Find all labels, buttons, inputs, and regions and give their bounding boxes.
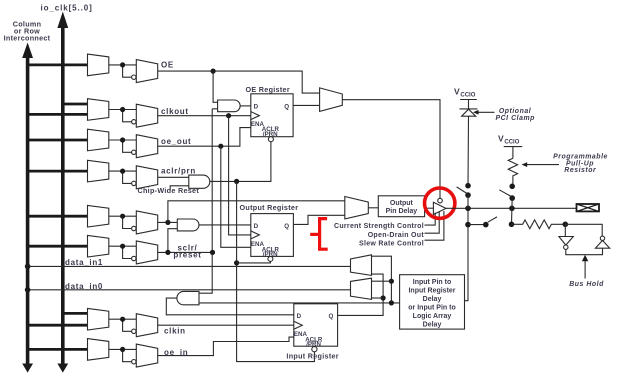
diode PCI clamp xyxy=(460,109,478,186)
svg-text:OE: OE xyxy=(161,61,174,70)
node data_in1 label xyxy=(65,258,103,267)
mux sclr/preset (interconnect select) xyxy=(88,235,137,257)
svg-text:CCIO: CCIO xyxy=(460,93,475,99)
power rail clamp xyxy=(460,100,477,109)
svg-text:io_clk[5..0]: io_clk[5..0] xyxy=(41,4,93,13)
wire stub aclr/prn row xyxy=(28,170,88,173)
wire stub oe_in row xyxy=(28,348,88,351)
junction aclr to output register bubble xyxy=(234,260,239,265)
node Optional PCI Clamp label xyxy=(495,108,534,122)
wire data_out bypass to output mux xyxy=(168,201,345,223)
flip-flop Output Register xyxy=(251,214,294,259)
wire sclr/preset line xyxy=(158,251,213,253)
svg-text:Output: Output xyxy=(390,200,414,207)
wire bus hold branch from pad line xyxy=(511,208,513,224)
pin Input Register ACLR bubble xyxy=(312,347,317,352)
wire OE Register Q to bypass mux xyxy=(293,104,320,106)
bus column/row interconnect (left vertical bus with arrows) xyxy=(22,43,33,373)
wire output mux to output pin delay xyxy=(368,207,378,209)
wire oe_in line to input register ENA xyxy=(158,337,294,356)
mux aclr/prn (interconnect select) xyxy=(88,160,137,182)
svg-text:Interconnect: Interconnect xyxy=(4,34,51,43)
svg-text:Bus Hold: Bus Hold xyxy=(569,281,604,288)
node clkin label xyxy=(164,326,186,335)
junction input branch switch xyxy=(465,222,471,228)
gate chip-wide reset AND xyxy=(189,175,210,188)
flip-flop OE Register xyxy=(251,94,293,138)
svg-text:preset: preset xyxy=(173,250,201,259)
buffer aclr/prn programmable inversion xyxy=(123,166,158,189)
junction clkout tap xyxy=(226,113,231,118)
mux data_in1 select (left pointing) xyxy=(351,255,372,276)
wire stub clkin row upper (from io_clk) xyxy=(63,312,88,315)
mux oe_out (interconnect select) xyxy=(88,129,137,151)
junction clkout xyxy=(120,107,125,112)
junction data_in1 on bus xyxy=(25,264,31,270)
wire oe_out vertical to output register ENA xyxy=(221,146,251,247)
buffer clkin programmable inversion xyxy=(123,314,158,337)
junction oe_out tap xyxy=(218,144,223,149)
svg-text:Pin Delay: Pin Delay xyxy=(386,208,418,215)
switch input disconnect xyxy=(468,217,497,228)
svg-text:Q: Q xyxy=(329,313,334,320)
diode bus hold right (up) xyxy=(595,236,609,248)
node Programmable Pull-Up Resistor label xyxy=(553,154,608,174)
node Current Strength Control label xyxy=(334,223,424,230)
buffer data_out programmable inversion xyxy=(123,211,158,234)
mux output path select xyxy=(345,197,369,219)
wire sclr vertical distribution xyxy=(199,109,218,293)
junction OE tap xyxy=(211,69,216,74)
svg-text:data_in1: data_in1 xyxy=(65,258,103,267)
junction pad line pull-up branch xyxy=(509,206,515,212)
wire stub clkout row upper (from io_clk) xyxy=(63,103,88,106)
mux oe_in (interconnect select) xyxy=(88,339,137,361)
wire clkin line to input register clock xyxy=(158,324,294,326)
wire stub clkout row lower xyxy=(28,113,88,116)
buffer oe_in programmable inversion xyxy=(123,344,158,367)
node VCCIO pull-up label xyxy=(498,134,520,146)
wire arrow to clamp diode xyxy=(473,110,495,115)
pin tri-state OE bubble xyxy=(438,198,443,203)
wire branch to mux B top input xyxy=(372,280,392,282)
node aclr/prn label xyxy=(161,166,196,175)
wire arrow to pull-up resistor xyxy=(522,162,560,167)
wire delay box output line to gate xyxy=(199,302,400,304)
junction aclr/prn xyxy=(120,169,125,174)
pin OE Register ACLR bubble xyxy=(268,137,273,142)
wire aclr vertical distribution xyxy=(237,181,315,361)
node Open-Drain Out label xyxy=(368,232,425,239)
junction oe_in xyxy=(120,347,125,352)
svg-text:D: D xyxy=(254,223,259,230)
mux clkin (interconnect select) xyxy=(88,308,137,330)
wire data_out line to AND gate xyxy=(158,221,178,223)
junction oe_out xyxy=(120,137,125,142)
wire OE mux output to tri-state control xyxy=(342,100,440,199)
junction data_in0 on bus xyxy=(25,287,31,293)
switch pull-up xyxy=(499,184,515,209)
svg-text:Delay: Delay xyxy=(423,322,442,329)
buffer clkout programmable inversion xyxy=(123,104,158,127)
node VCCIO clamp label xyxy=(454,87,476,99)
node sclr/preset label xyxy=(173,243,201,259)
junction clkin xyxy=(120,317,125,322)
svg-text:Output Register: Output Register xyxy=(240,203,299,212)
bus io_clk (second vertical bus with arrows) xyxy=(57,12,68,373)
wire pad line xyxy=(446,207,577,209)
junction bus hold node xyxy=(563,222,569,228)
wire bus hold loop xyxy=(565,224,602,254)
svg-text:aclr/prn: aclr/prn xyxy=(161,166,196,175)
junction mux B top input xyxy=(389,279,394,284)
wire open-drain out stub xyxy=(425,212,440,233)
block Input Pin Delay xyxy=(400,275,465,329)
svg-text:Programmable: Programmable xyxy=(553,154,608,161)
svg-text:Current Strength Control: Current Strength Control xyxy=(334,223,424,230)
wire slew rate control stub xyxy=(425,211,444,240)
junction pad line clamp branch xyxy=(465,206,471,212)
svg-text:oe_out: oe_out xyxy=(161,137,191,146)
block Output Pin Delay xyxy=(378,196,424,217)
svg-text:OE Register: OE Register xyxy=(246,85,290,94)
buffer sclr/preset programmable inversion xyxy=(123,241,158,264)
svg-text:CCIO: CCIO xyxy=(504,140,519,146)
node OE Register label xyxy=(246,85,290,94)
node io_clk[5..0] label xyxy=(41,4,93,13)
junction sclr vertical xyxy=(210,250,215,255)
mux OE bypass select xyxy=(320,88,343,112)
wire gate output to input register D xyxy=(166,298,293,315)
wire stub clkin row lower xyxy=(28,324,88,327)
gate output register sclr AND xyxy=(177,219,199,231)
svg-text:Logic Array: Logic Array xyxy=(413,313,452,320)
wire clkout vertical to output register clock xyxy=(229,116,251,235)
svg-text:V: V xyxy=(498,134,504,144)
wire current strength control stub xyxy=(425,213,436,226)
wire delay box to mux top inputs xyxy=(372,256,392,303)
wire aclr gate output to OE register ACLR bubble xyxy=(210,142,271,182)
wire OE to AND gate top input xyxy=(213,71,218,102)
svg-text:Resistor: Resistor xyxy=(564,167,596,174)
svg-text:D: D xyxy=(254,103,259,110)
wire Input Register Q to input muxes xyxy=(338,274,384,315)
junction data_out xyxy=(120,214,125,219)
wire aclr/prn to gate xyxy=(158,176,189,178)
svg-text:V: V xyxy=(454,87,460,97)
svg-text:Input Register: Input Register xyxy=(286,352,339,361)
buffer oe_out programmable inversion xyxy=(123,135,158,158)
wire pad branch into delay box xyxy=(465,208,469,300)
node Slew Rate Control label xyxy=(359,240,424,247)
svg-text:clkin: clkin xyxy=(164,326,186,335)
node Bus Hold label xyxy=(569,281,604,288)
diode bus hold left (down) xyxy=(559,237,573,250)
node oe_in label xyxy=(164,348,188,357)
svg-text:Q: Q xyxy=(284,103,289,110)
svg-text:Slew Rate Control: Slew Rate Control xyxy=(359,240,424,247)
junction sclr gate branch xyxy=(165,250,170,255)
node Input Register label xyxy=(286,352,339,361)
wire stub sclr/preset row xyxy=(28,245,88,248)
mux data_in0 select (left pointing) xyxy=(351,278,372,299)
op-amp U-AND1 OE register input gate xyxy=(218,100,251,112)
annotation red circle around tri-state buffer xyxy=(425,188,455,218)
node Chip-Wide Reset label xyxy=(138,186,200,195)
power rail pull-up xyxy=(504,147,523,159)
junction OE xyxy=(120,62,125,67)
junction sclr/preset xyxy=(120,244,125,249)
wire stub oe_out row xyxy=(28,139,88,142)
wire data_in1 line xyxy=(28,265,351,267)
svg-text:or Input Pin to: or Input Pin to xyxy=(408,305,455,312)
resistor bus hold series xyxy=(512,220,566,229)
wire bus hold arrow xyxy=(582,255,588,279)
pin Output Register ACLR bubble xyxy=(268,256,273,261)
node Output Register label xyxy=(240,203,299,212)
wire output pin delay to tri-state buffer xyxy=(425,207,434,209)
wire stub data_out row xyxy=(28,215,88,218)
buffer OE programmable inversion xyxy=(123,60,158,83)
svg-text:Delay: Delay xyxy=(423,296,442,303)
node Column or Row Interconnect label xyxy=(4,20,51,43)
pad I/O pin xyxy=(577,204,600,211)
svg-text:Open-Drain Out: Open-Drain Out xyxy=(368,232,425,239)
svg-text:D: D xyxy=(297,313,302,320)
wire stub OE row xyxy=(28,64,88,67)
node data_in0 label xyxy=(65,282,103,291)
svg-text:Input Pin to: Input Pin to xyxy=(413,279,452,286)
junction input mux B lower input xyxy=(381,295,386,300)
wire aclr branch to output register ACLR bubble xyxy=(237,261,271,263)
node OE label xyxy=(161,61,174,70)
wire OE line xyxy=(158,71,320,93)
node oe_out label xyxy=(161,137,191,146)
svg-text:Q: Q xyxy=(284,223,289,230)
wire clkout line to OE register clock xyxy=(158,115,251,117)
transistor tri-state output buffer xyxy=(433,202,446,214)
wire gate output to output register D xyxy=(199,224,251,226)
junction aclr tap xyxy=(234,179,239,184)
svg-text:Chip-Wide Reset: Chip-Wide Reset xyxy=(138,186,200,195)
wire data_in0 line xyxy=(28,289,351,291)
junction bus hold start xyxy=(509,222,515,228)
svg-text:clkout: clkout xyxy=(161,107,189,116)
junction delay box output xyxy=(389,300,394,305)
wire Output Register Q to output mux xyxy=(293,215,344,224)
mux data_out (interconnect select) xyxy=(88,205,137,227)
wire chip-wide reset hook input xyxy=(170,186,189,191)
flip-flop Input Register xyxy=(294,304,338,348)
svg-text:PCI Clamp: PCI Clamp xyxy=(495,115,534,122)
switch PCI clamp xyxy=(457,183,471,208)
annotation red brace xyxy=(310,219,328,250)
resistor programmable pull-up xyxy=(508,158,517,186)
wire sclr stub into gate xyxy=(168,229,177,253)
wire oe_out line to OE register ENA xyxy=(158,128,251,147)
junction data_out tap xyxy=(165,220,170,225)
svg-text:Input Register: Input Register xyxy=(408,288,455,295)
wire branch to mux B lower input xyxy=(372,297,384,299)
mux OE (interconnect select) xyxy=(88,54,137,76)
node clkout label xyxy=(161,107,189,116)
gate input register sclr AND (left pointing) xyxy=(177,291,199,304)
mux clkout (interconnect select) xyxy=(88,99,137,121)
